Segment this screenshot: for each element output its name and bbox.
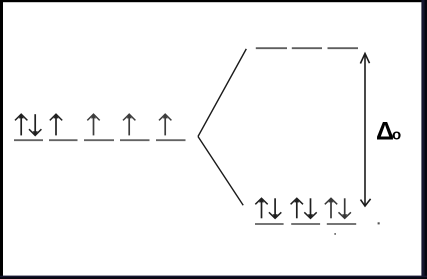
svg-text:o: o: [392, 127, 401, 144]
